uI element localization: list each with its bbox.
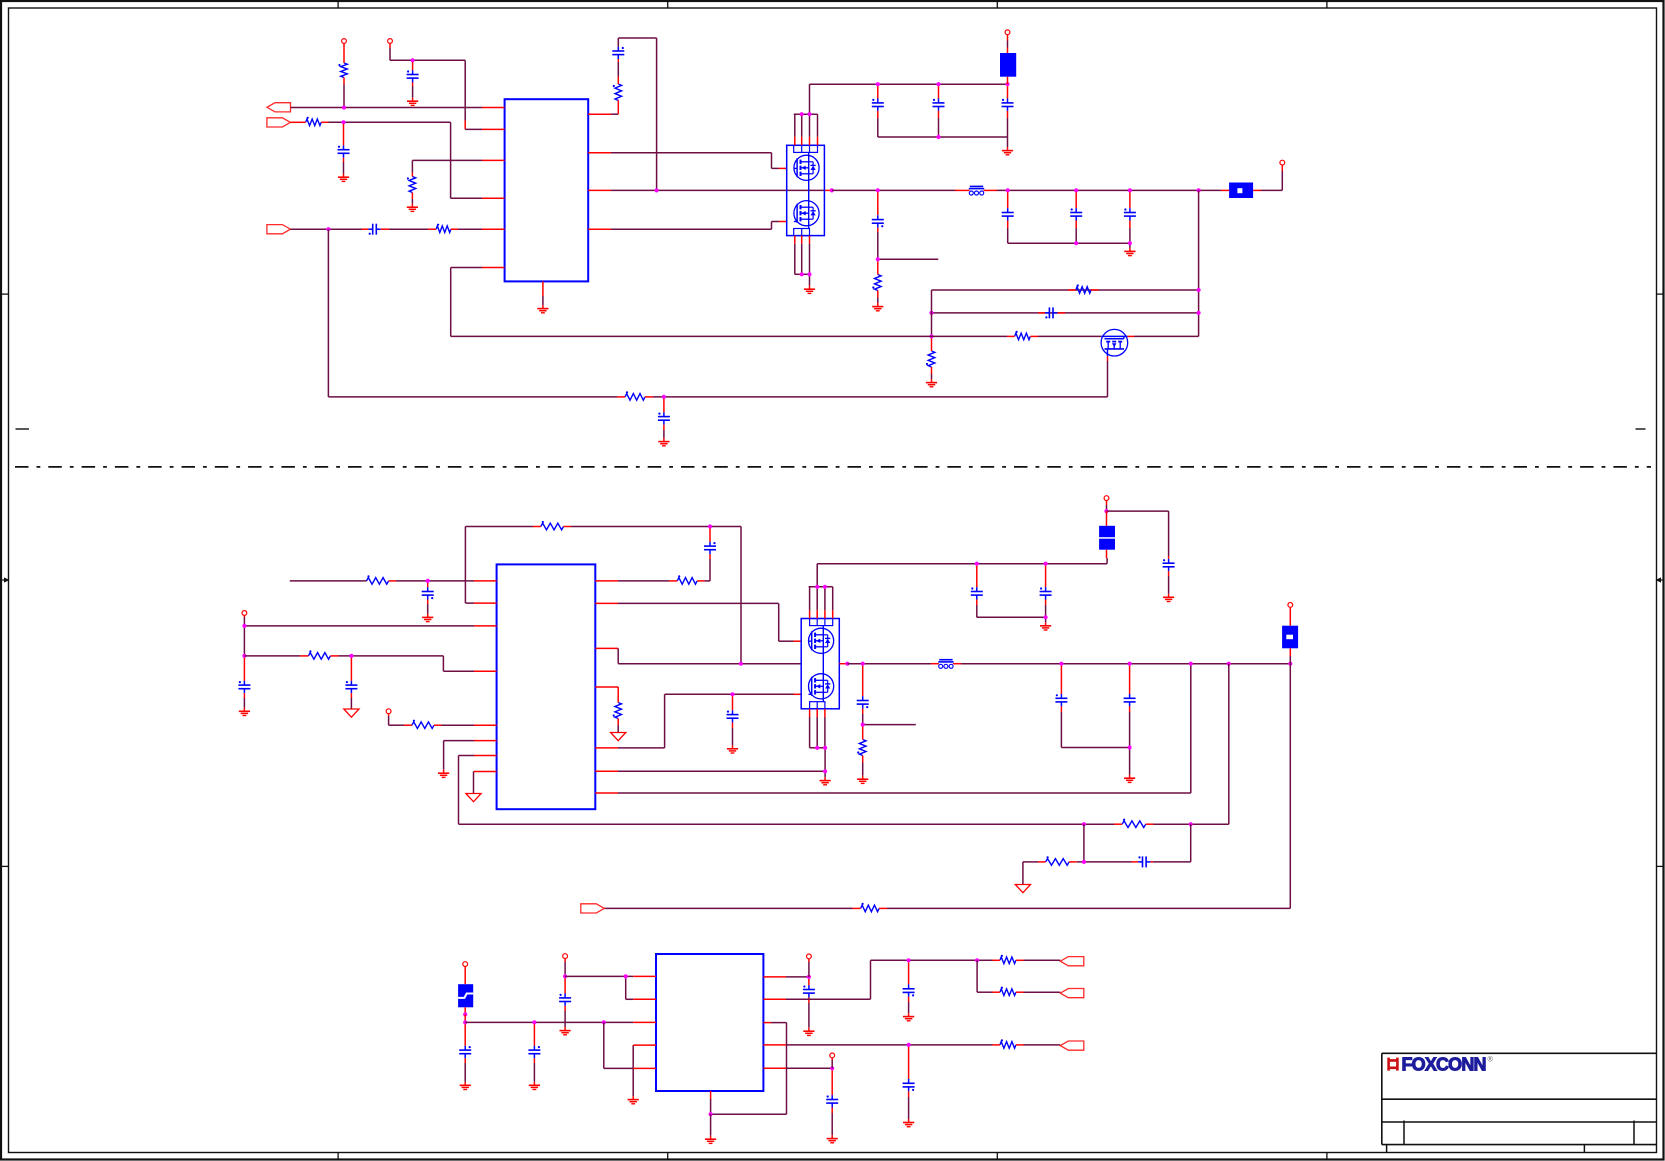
node fuse5 bottom a <box>463 1012 467 1016</box>
pin stub U1 pin3 left <box>482 159 505 161</box>
wire Q3 drain <box>1134 335 1199 337</box>
wire out3 branch conn <box>1024 991 1061 993</box>
resistor R5 <box>615 84 622 100</box>
node pkg2 top link 2 <box>823 585 827 589</box>
pin stub U3 pin1 right <box>595 580 618 582</box>
wire C16 gnd <box>243 698 245 708</box>
wire jumper to pin <box>1261 189 1282 191</box>
border zone tick bottom <box>667 1153 669 1161</box>
wire fb2 to pin <box>396 580 474 582</box>
resistor R8 <box>1015 333 1031 340</box>
resistor R17 <box>859 740 866 756</box>
power pin P12 <box>830 1053 835 1058</box>
capacitor C5 <box>877 99 879 103</box>
ground G11 <box>427 614 429 618</box>
capacitor C21 <box>1168 559 1170 563</box>
border zone tick right <box>1657 865 1665 867</box>
wire C15 to corner <box>709 559 711 581</box>
node vout2 2 <box>1128 662 1132 666</box>
capacitor C10 <box>1075 208 1077 212</box>
wire fb top row <box>932 289 1199 291</box>
ground G20 <box>464 1082 466 1086</box>
capacitor C9 <box>1007 208 1009 212</box>
node fb2 junction <box>426 579 430 583</box>
border remnant dash left <box>16 428 30 430</box>
node out bank 1 <box>1074 241 1078 245</box>
power pin P9 <box>463 962 468 967</box>
node fb2 row2 a <box>1082 860 1086 864</box>
pin stub Q5 gate <box>794 693 802 695</box>
node pkg top link 1 <box>800 112 804 116</box>
wire bottom net <box>327 229 329 397</box>
ground G23 <box>632 1096 634 1100</box>
fuse F3 <box>1099 526 1115 537</box>
svg-text:FOXCONN: FOXCONN <box>1402 1055 1487 1075</box>
node vout2 5 <box>1288 662 1292 666</box>
wire P2 to bus <box>389 48 391 60</box>
pin stub U5 pin4 right <box>763 1044 786 1046</box>
ground G2 <box>343 174 345 178</box>
transistor Q4 (high side) <box>809 628 834 653</box>
analog ground AG2 <box>466 794 481 802</box>
wire U3 pin7 route <box>459 755 475 757</box>
node vin bus 1 <box>876 82 880 86</box>
capacitor C23 <box>1060 694 1062 698</box>
pin stub U1 pin4 right <box>588 228 611 230</box>
pin stub Q4 gate <box>794 640 802 642</box>
wire RC top <box>617 38 619 47</box>
capacitor C15 <box>709 542 711 546</box>
wire U3 pin8 gnd <box>473 771 476 773</box>
wire C19 bottom <box>976 605 978 617</box>
node vout junction 3 <box>1128 188 1132 192</box>
node pkg2 source junction <box>823 769 827 773</box>
node vout junction 4 <box>1197 188 1201 192</box>
wire C29 gnd <box>808 1003 810 1028</box>
pin stub U5 pin5 left <box>633 1067 656 1069</box>
wire U1 pin6 route <box>451 267 482 269</box>
package top interior header <box>794 145 818 152</box>
wire ss2 b <box>442 724 475 726</box>
fuse F1 <box>1000 53 1016 77</box>
power pin P7 <box>1104 496 1109 501</box>
wire C31 gnd <box>908 1097 910 1119</box>
capacitor C7 <box>1007 99 1009 103</box>
ground G19 <box>1129 775 1131 779</box>
border zone tick left <box>1 865 9 867</box>
wire C18 gnd <box>732 728 734 745</box>
package2 bottom interior header <box>810 702 825 709</box>
pin stub U3 pin2 right <box>595 602 618 604</box>
capacitor C20 <box>1045 587 1047 591</box>
capacitor C1 <box>412 70 414 74</box>
capacitor C29 <box>808 985 810 989</box>
pin stub U5 pin2 right <box>763 998 786 1000</box>
pin stub U1 pin2 right <box>588 152 611 154</box>
wire ss2 net <box>388 716 390 725</box>
wire bypass route <box>1107 510 1169 512</box>
wire C24 bottom <box>1129 712 1131 748</box>
wire U3 pin6 gnd <box>444 740 474 742</box>
wire byp route <box>786 1067 832 1069</box>
analog ground AG1 <box>344 709 359 717</box>
wire C2 to gnd <box>343 162 345 174</box>
pin stub U3 pin6 left <box>474 740 497 742</box>
pin stub U1 pin1 left <box>482 107 505 109</box>
ground G17 <box>1168 594 1170 598</box>
wire P3 to fuse <box>1007 41 1009 48</box>
jumper F2 <box>1229 183 1253 199</box>
wire en3 net <box>565 975 633 977</box>
wire R17 gnd <box>862 763 864 776</box>
pin stub Q1 source out <box>824 189 831 191</box>
wire gate row a <box>920 335 1007 337</box>
node snub2 junction <box>861 723 865 727</box>
node fb gate row <box>929 334 933 338</box>
title block outline <box>1382 1052 1657 1054</box>
package internal drain link <box>808 152 810 155</box>
wire RC col <box>611 113 618 115</box>
wire fuse2 to bus <box>1106 558 1108 564</box>
pin stub U5 pin4 left <box>633 1044 656 1046</box>
wire C32 gnd <box>831 1113 833 1135</box>
port connector IN2 <box>267 225 291 234</box>
wire EN net <box>329 121 451 123</box>
pin stub U3 pin3 right <box>595 647 618 649</box>
node pkg2 top link 1 <box>815 585 819 589</box>
wire U5 pin5 route <box>604 1067 634 1069</box>
ground G8 <box>1129 248 1131 252</box>
capacitor C28 <box>564 994 566 998</box>
capacitor C16 <box>243 681 245 685</box>
node vin3 a <box>532 1020 536 1024</box>
node pkg2 bottom link 1 <box>815 746 819 750</box>
pin stub L2 left <box>931 663 939 665</box>
capacitor C14 <box>427 587 429 591</box>
wire C26 gnd <box>464 1063 466 1082</box>
pin stub U1 gnd bottom <box>542 281 544 296</box>
power pin P5 <box>242 611 247 616</box>
port connector IN1 <box>267 118 291 127</box>
border zone tick right <box>1657 293 1665 295</box>
wire R3 to gnd <box>411 199 413 204</box>
pin stub U3 pin2 left <box>474 602 497 604</box>
resistor R18 <box>1122 821 1146 828</box>
pin stub Q3 drain <box>1127 335 1134 337</box>
pin stub U3 pin6 right <box>595 770 618 772</box>
wire C17 to tgnd <box>350 698 352 709</box>
resistor R16 <box>615 703 622 719</box>
wire output bus <box>997 189 1221 191</box>
pin stub U5 pin2 left <box>633 998 656 1000</box>
wire package top link <box>794 113 818 115</box>
pin stub package2 out <box>839 663 847 665</box>
wire source gnd link <box>618 770 825 772</box>
resistor R1 <box>341 63 348 78</box>
wire net VCC out <box>291 107 483 109</box>
border zone tick top <box>337 1 339 8</box>
resistor R19 <box>1046 859 1070 866</box>
pin stub L1 left <box>955 189 970 191</box>
PWM controller U3 <box>497 564 596 809</box>
node pkg bottom link 2 <box>807 272 811 276</box>
power pin P3 <box>1005 30 1010 35</box>
node out3 b <box>975 958 979 962</box>
pin stub Q1 gate <box>779 167 787 169</box>
node vin2 bus 1 <box>975 562 979 566</box>
pin lead red R5 top <box>617 77 619 85</box>
inductor L2 <box>939 659 952 661</box>
wire C28 gnd <box>564 1011 566 1027</box>
pin stub U3 pin5 left <box>474 724 497 726</box>
wire fb vertical <box>1198 190 1200 336</box>
resistor R4 <box>436 226 451 233</box>
pin stub U1 pin6 left <box>482 267 505 269</box>
ground G6 <box>1007 147 1009 151</box>
node fb r 1 <box>1197 288 1201 292</box>
node VCC junction <box>342 105 346 109</box>
pin lead red 2 <box>1289 611 1291 618</box>
port connector OUT1 <box>267 103 291 112</box>
resistor R3 <box>409 177 416 193</box>
ground G18 <box>862 776 864 780</box>
wire out4 route <box>786 1044 993 1046</box>
node fb c 1 <box>1197 311 1201 315</box>
ground G12 <box>243 708 245 712</box>
node cap tap <box>411 58 415 62</box>
capacitor C30 <box>908 984 910 988</box>
node SS junction <box>326 227 330 231</box>
wire gate1 drive <box>611 152 772 154</box>
capacitor C11 <box>1129 208 1131 212</box>
ground G5 <box>809 286 811 290</box>
pin stub U3 pin7 left <box>474 755 497 757</box>
wire U5 pin4 gnd <box>632 1044 634 1046</box>
node EN junction <box>341 120 345 124</box>
wire fb2 link vert <box>1083 824 1085 862</box>
resistor R11 <box>367 578 389 585</box>
wire phase2 bus b <box>961 663 1290 665</box>
wire U5 bottom gnd lead <box>710 1114 712 1136</box>
ground G25 <box>808 1028 810 1032</box>
wire SS net b <box>389 228 428 230</box>
node phase2 a <box>845 662 849 666</box>
node vcc2 a <box>242 624 246 628</box>
node pkg top link 2 <box>807 112 811 116</box>
wire P7 junction lead <box>1106 505 1108 511</box>
dual MOSFET package U2 outline <box>787 145 825 235</box>
border center arrow left <box>1 579 7 581</box>
pin stub U3 pin1 left <box>474 580 497 582</box>
wire phase2 sense <box>617 648 619 663</box>
capacitor C19 <box>976 587 978 591</box>
wire Q3 source <box>1107 361 1109 397</box>
wire C21 gnd <box>1168 576 1170 594</box>
border remnant dash right <box>1636 428 1646 430</box>
pin stub U1 pin1 right <box>588 113 611 115</box>
border zone tick left <box>1 293 9 295</box>
node out4 a <box>907 1043 911 1047</box>
ground G15 <box>824 777 826 781</box>
ground G4 <box>542 305 544 309</box>
wire gate3 drive <box>618 602 779 604</box>
wire out3 to conn <box>1024 959 1061 961</box>
node fb c 0 <box>929 311 933 315</box>
resistor R14 <box>308 653 330 660</box>
wire r2c a <box>618 580 669 582</box>
resistor R9 <box>928 351 935 367</box>
capacitor C12 <box>1045 312 1049 314</box>
node vin3 b <box>602 1020 606 1024</box>
wire out4 to conn <box>1024 1044 1061 1046</box>
node vcc2 b <box>242 654 246 658</box>
transistor Q5 (low side) <box>809 674 834 699</box>
node vldo <box>807 975 811 979</box>
pin stub U3 pin7 right <box>595 792 618 794</box>
node pkg bottom link 1 <box>800 272 804 276</box>
transistor Q3 <box>1101 329 1128 356</box>
wire gate2 drive <box>611 228 772 230</box>
pin lead red C4 bottom <box>617 59 619 62</box>
border zone tick bottom <box>996 1153 998 1161</box>
capacitor C27 <box>533 1046 535 1050</box>
resistor R20 <box>861 905 880 912</box>
capacitor C31 <box>908 1079 910 1083</box>
node vout2 3 <box>1189 662 1193 666</box>
pin stubs package2 top <box>809 610 811 618</box>
node vin bus 2 <box>936 82 940 86</box>
node out2 bank <box>1128 745 1132 749</box>
node fuse5 bottom b <box>463 1020 467 1024</box>
node pkg2 bottom link 2 <box>823 746 827 750</box>
power pin P6 <box>386 709 391 714</box>
pin stub U1 pin5 left <box>482 228 505 230</box>
wire C8 low <box>877 232 879 259</box>
package2 internal drain link <box>822 626 824 629</box>
wire package2 bottom link <box>809 717 811 748</box>
pin stub U5 pin3 right <box>763 1022 771 1024</box>
wire jumper2 lead <box>1289 656 1291 664</box>
pin stub U3 pin4 left <box>474 670 497 672</box>
ground G7 <box>877 303 879 307</box>
pin stub U5 pin1 left <box>633 975 656 977</box>
pin stub U5 pin5 right <box>763 1067 786 1069</box>
resistor R21 <box>1000 957 1016 964</box>
node input2 bottom <box>1044 615 1048 619</box>
ground G9 <box>931 379 933 383</box>
wire SS net a <box>290 228 362 230</box>
capacitor C32 <box>831 1095 833 1099</box>
capacitor C18 <box>732 710 734 714</box>
ground G24 <box>710 1136 712 1140</box>
resistor R2 <box>306 119 322 126</box>
resistor R6 <box>875 275 882 291</box>
border zone tick bottom <box>337 1153 339 1161</box>
node phase junction B <box>830 188 834 192</box>
ground G28 <box>831 1135 833 1139</box>
pin stub U1 pin4 left <box>482 197 505 199</box>
analog ground AG4 <box>1015 885 1030 893</box>
border zone tick top <box>1326 1 1328 8</box>
node phase2 sense junction <box>739 662 743 666</box>
pin stubs package top <box>794 137 796 146</box>
node vout2 4 <box>1227 662 1231 666</box>
power pin P1 <box>342 39 347 44</box>
pin stub Q3 source <box>1107 356 1109 361</box>
power pin P10 <box>563 954 568 959</box>
wire fb2 long <box>618 792 1191 794</box>
capacitor C13 <box>663 412 665 416</box>
wire C10 bottom <box>1075 228 1077 243</box>
wire package bottom link <box>794 244 796 274</box>
wire gate4 drive <box>618 747 665 749</box>
pin stubs package bottom <box>794 236 796 244</box>
wire vcc2 net <box>243 617 245 656</box>
wire to U1 pin2 <box>465 128 482 130</box>
border zone tick bottom <box>1326 1153 1328 1161</box>
pin lead red f5 <box>464 1014 466 1022</box>
wire out3 route <box>786 998 871 1000</box>
wire C27 gnd <box>533 1063 535 1082</box>
wire C1 to gnd <box>412 86 414 98</box>
border zone tick top <box>667 1 669 8</box>
jumper F4 <box>1282 626 1298 649</box>
wire C7 bottom <box>1007 118 1009 137</box>
capacitor C3 <box>368 228 372 230</box>
pin lead red <box>1281 165 1283 171</box>
node vout2 1 <box>1059 662 1063 666</box>
wire phase bus b <box>832 189 955 191</box>
wire phase through package <box>787 189 825 191</box>
fuse F5 <box>458 984 473 1007</box>
ground G14 <box>732 745 734 749</box>
Foxconn logo H mark <box>1389 1058 1398 1071</box>
wire C30 gnd <box>908 1002 910 1013</box>
border zone tick top <box>996 1 998 8</box>
node gate4 junction <box>730 692 734 696</box>
pin stub U5 pin1 right <box>763 976 786 978</box>
transistor Q1 (high side) <box>794 155 819 180</box>
node out bank 2 <box>1128 241 1132 245</box>
transistor Q2 (low side) <box>794 201 819 226</box>
pin stub U1 pin3 right <box>588 189 611 191</box>
wire P11 lead <box>808 962 810 977</box>
node vout junction 2 <box>1074 188 1078 192</box>
title block bottom row <box>1386 1145 1388 1153</box>
pin stub U5 pin3 left <box>633 1021 656 1023</box>
inductor L1 <box>970 185 983 187</box>
port connector IN3 <box>581 904 605 913</box>
pin stub L2 right <box>953 663 961 665</box>
pin stub L1 right <box>984 189 998 191</box>
wire P12 lead <box>831 1060 833 1068</box>
wire phase2 bus a <box>847 663 931 665</box>
port connector OUT2 <box>1060 957 1084 966</box>
pin lead vertical red <box>464 121 466 130</box>
ground G16 <box>1045 622 1047 626</box>
wire en3 lead <box>564 962 566 976</box>
node en3 a <box>563 974 567 978</box>
PWM controller U1 <box>505 99 589 281</box>
wire C20 bottom <box>1045 605 1047 617</box>
svg-text:®: ® <box>1488 1056 1494 1064</box>
wire C6 bottom <box>938 118 940 137</box>
power pin P4 <box>1280 160 1285 165</box>
pin stub U3 pin4 right <box>595 686 618 688</box>
ground G10 <box>663 438 665 442</box>
pin stub U3 pin3 left <box>474 625 497 627</box>
wire C9 bottom <box>1007 228 1009 243</box>
